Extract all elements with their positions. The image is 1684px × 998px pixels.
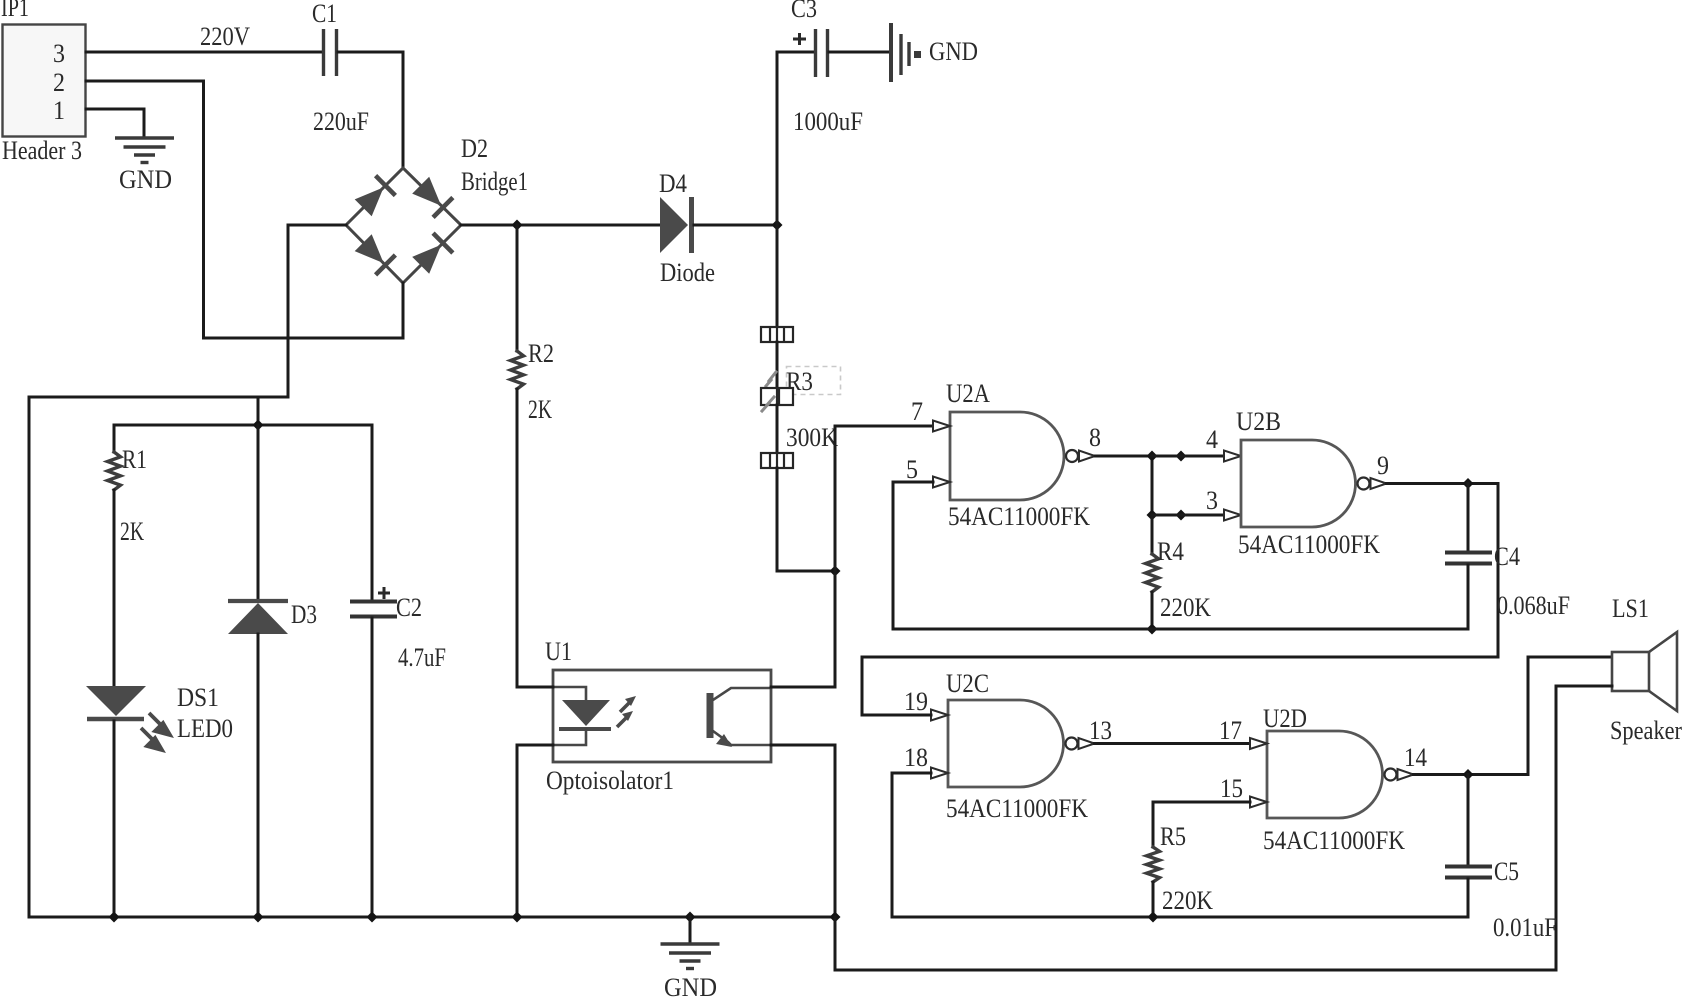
junction 4a bbox=[1176, 451, 1187, 462]
wire R5 down bbox=[1152, 882, 1155, 917]
pin number 1 bbox=[53, 96, 65, 125]
label 15 bbox=[1220, 774, 1243, 803]
svg-text:0.01uF: 0.01uF bbox=[1493, 913, 1557, 942]
ground rail A bbox=[29, 916, 835, 919]
svg-text:2K: 2K bbox=[528, 395, 552, 424]
resistor R5 bbox=[1147, 847, 1160, 882]
label R1 bbox=[122, 445, 147, 474]
label C4 bbox=[1494, 542, 1520, 571]
label 14 bbox=[1404, 743, 1427, 772]
label R5 bbox=[1160, 822, 1186, 851]
wire bridge right to D4 bbox=[461, 224, 660, 227]
svg-text:U2B: U2B bbox=[1236, 407, 1281, 436]
svg-text:9: 9 bbox=[1377, 451, 1389, 480]
svg-text:R1: R1 bbox=[122, 445, 147, 474]
label LED0 bbox=[177, 714, 233, 743]
svg-text:8: 8 bbox=[1089, 423, 1101, 452]
wire up to speaker bbox=[1528, 657, 1611, 775]
label C3 bbox=[791, 0, 817, 23]
U1 LED cathode path bbox=[553, 729, 586, 745]
capacitor C3 plates bbox=[816, 29, 828, 77]
svg-text:14: 14 bbox=[1404, 743, 1427, 772]
svg-text:19: 19 bbox=[904, 687, 928, 716]
LED DS1 arrows bbox=[141, 713, 170, 750]
label 18 bbox=[904, 743, 928, 772]
gray resistor mark lower bbox=[762, 397, 774, 411]
capacitor C4 bbox=[1445, 484, 1492, 630]
junction rail opto-right bbox=[830, 912, 841, 923]
capacitor C5 bbox=[1445, 775, 1492, 918]
wire D3 top stub bbox=[257, 397, 260, 424]
svg-text:C1: C1 bbox=[312, 0, 337, 28]
label U2B bbox=[1236, 407, 1281, 436]
label R4 bbox=[1157, 537, 1184, 566]
wire oscillator1 bottom bbox=[893, 628, 1468, 631]
svg-text:C2: C2 bbox=[396, 593, 422, 622]
label 0.068uF bbox=[1497, 591, 1570, 620]
wire to pin4 bbox=[1152, 455, 1224, 458]
optoisolator U1 box bbox=[553, 670, 771, 762]
wire node to pin7 and opto bbox=[835, 426, 933, 687]
svg-text:U2A: U2A bbox=[946, 379, 990, 408]
wire pin5 bbox=[893, 482, 933, 629]
label D2 bbox=[461, 134, 488, 163]
label U1 bbox=[545, 637, 572, 666]
nand gate U2C bbox=[948, 700, 1095, 787]
label U2C bbox=[946, 669, 989, 698]
power ground GND at C3 bbox=[891, 23, 921, 82]
wire C3 to GND bbox=[829, 51, 889, 54]
svg-text:Bridge1: Bridge1 bbox=[461, 167, 528, 196]
LED DS1 bbox=[86, 686, 146, 719]
wire pin3 to C1 bbox=[86, 51, 322, 54]
wire node to R4 bbox=[1151, 515, 1154, 554]
svg-text:U1: U1 bbox=[545, 637, 572, 666]
pin 17 triangle bbox=[1250, 738, 1267, 749]
svg-text:Optoisolator1: Optoisolator1 bbox=[546, 766, 674, 795]
label 2K R1 bbox=[120, 517, 144, 546]
svg-text:GND: GND bbox=[929, 37, 978, 66]
junction at R2 top bbox=[512, 220, 523, 231]
junction D3 top bbox=[253, 420, 264, 431]
svg-text:220K: 220K bbox=[1162, 886, 1213, 915]
C3 plus sign bbox=[793, 33, 806, 45]
junction rail C2 bbox=[367, 912, 378, 923]
svg-text:D3: D3 bbox=[291, 600, 317, 629]
pin 5 triangle bbox=[933, 477, 950, 488]
label C5 bbox=[1494, 857, 1519, 886]
bridge rectifier D2 bbox=[346, 168, 461, 283]
junction R5 bottom bbox=[1148, 912, 1159, 923]
svg-text:13: 13 bbox=[1089, 716, 1112, 745]
label 54AC11000FK U2B bbox=[1238, 530, 1380, 559]
gray resistor mark upper bbox=[766, 372, 776, 386]
wire opto left output bbox=[517, 745, 553, 916]
C2 plus sign bbox=[378, 587, 390, 599]
label 4 bbox=[1206, 425, 1218, 454]
label Optoisolator1 bbox=[546, 766, 674, 795]
svg-text:0.068uF: 0.068uF bbox=[1497, 591, 1570, 620]
wire D3 to rail bbox=[257, 634, 260, 916]
svg-text:R2: R2 bbox=[528, 339, 554, 368]
wire pin2 down to bridge bottom bbox=[204, 81, 404, 338]
U1 phototransistor bbox=[707, 688, 772, 747]
U1 LED anode path bbox=[553, 687, 586, 700]
label Diode bbox=[660, 258, 715, 287]
svg-text:15: 15 bbox=[1220, 774, 1243, 803]
wire R2 to optoisolator bbox=[516, 389, 519, 687]
wire pin1 right bbox=[86, 109, 144, 136]
label 4.7uF bbox=[398, 643, 446, 672]
svg-text:IP1: IP1 bbox=[1, 0, 29, 22]
svg-text:5: 5 bbox=[906, 455, 918, 484]
ground GND bottom bbox=[661, 944, 720, 969]
junction R3 node bbox=[830, 566, 841, 577]
junction C5 top bbox=[1463, 769, 1474, 780]
svg-text:220uF: 220uF bbox=[313, 107, 369, 136]
label 0.01uF bbox=[1493, 913, 1557, 942]
label R3 bbox=[786, 367, 813, 396]
svg-text:D4: D4 bbox=[659, 169, 687, 198]
wire opto left input bbox=[517, 686, 553, 689]
svg-text:18: 18 bbox=[904, 743, 928, 772]
svg-text:1000uF: 1000uF bbox=[793, 107, 863, 136]
label U2D bbox=[1263, 704, 1307, 733]
pin 15 triangle bbox=[1250, 797, 1267, 808]
wire speaker lower bbox=[1556, 685, 1612, 688]
svg-text:C4: C4 bbox=[1494, 542, 1520, 571]
label 300K bbox=[786, 423, 838, 452]
wire R4 to loop bbox=[1151, 592, 1154, 629]
label 2K R2 bbox=[528, 395, 552, 424]
pin 7 triangle bbox=[933, 421, 950, 432]
svg-text:GND: GND bbox=[119, 165, 172, 194]
wire node down to R3 bbox=[776, 225, 779, 327]
pin number 3 bbox=[53, 39, 65, 68]
wire pin15 bbox=[1153, 802, 1250, 847]
label 3 bbox=[1206, 486, 1218, 515]
svg-text:LED0: LED0 bbox=[177, 714, 233, 743]
wire R1 top stub bbox=[113, 425, 116, 452]
capacitor C1 plates bbox=[324, 29, 337, 76]
pin number 2 bbox=[53, 68, 65, 97]
wire U2A output bbox=[1095, 455, 1152, 458]
pin 19 triangle bbox=[931, 710, 948, 721]
svg-text:220V: 220V bbox=[200, 22, 250, 51]
wire R1 to LED bbox=[113, 490, 116, 686]
svg-text:4: 4 bbox=[1206, 425, 1218, 454]
junction rail GND bbox=[685, 912, 696, 923]
label 5 bbox=[906, 455, 918, 484]
resistor R2 bbox=[511, 351, 524, 389]
junction rail opto-left bbox=[512, 912, 523, 923]
wire R3 lower segment bbox=[776, 405, 779, 453]
wire R3 upper segment bbox=[776, 342, 779, 388]
wire pin18 bbox=[892, 773, 931, 917]
label GND bottom bbox=[664, 973, 717, 998]
ground GND header bbox=[115, 138, 174, 194]
label GND at C3 bbox=[929, 37, 978, 66]
resistor R1 bbox=[108, 452, 121, 490]
svg-text:LS1: LS1 bbox=[1612, 594, 1649, 623]
wire D3 branch bbox=[257, 425, 260, 601]
label Bridge1 bbox=[461, 167, 528, 196]
wire to pin3 bbox=[1152, 514, 1224, 517]
svg-text:2K: 2K bbox=[120, 517, 144, 546]
svg-text:D2: D2 bbox=[461, 134, 488, 163]
wire block top bbox=[114, 424, 372, 427]
speaker LS1 bbox=[1612, 632, 1677, 711]
svg-text:7: 7 bbox=[911, 397, 923, 426]
wire node up to C3 bbox=[777, 52, 814, 225]
junction D4 output bbox=[772, 220, 783, 231]
footprint pad symbol above R3 bbox=[761, 327, 793, 342]
svg-text:GND: GND bbox=[664, 973, 717, 998]
svg-text:U2D: U2D bbox=[1263, 704, 1307, 733]
junction rail D3 bbox=[253, 912, 264, 923]
junction 3b bbox=[1176, 510, 1187, 521]
capacitor C2 bbox=[350, 602, 397, 617]
label 13 bbox=[1089, 716, 1112, 745]
label 7 bbox=[911, 397, 923, 426]
wire U2B output bbox=[1387, 482, 1499, 485]
svg-text:300K: 300K bbox=[786, 423, 838, 452]
resistor R4 bbox=[1146, 554, 1159, 592]
nand gate U2B bbox=[1241, 440, 1387, 527]
label 220K R5 bbox=[1162, 886, 1213, 915]
svg-text:54AC11000FK: 54AC11000FK bbox=[1263, 826, 1405, 855]
label C1 bbox=[312, 0, 337, 28]
wire C1 to bridge top bbox=[338, 52, 403, 167]
label Header 3 bbox=[2, 136, 82, 165]
svg-text:54AC11000FK: 54AC11000FK bbox=[946, 794, 1088, 823]
wire opto right emitter bbox=[771, 745, 835, 970]
selection box R3 bbox=[787, 367, 841, 395]
ground rail B bbox=[892, 916, 1468, 919]
wire opto right collector bbox=[771, 686, 835, 689]
svg-text:R4: R4 bbox=[1157, 537, 1184, 566]
junction C4 top bbox=[1463, 478, 1474, 489]
resistor R3 pad symbols bbox=[761, 388, 793, 405]
pin 18 triangle bbox=[931, 768, 948, 779]
label DS1 bbox=[177, 683, 219, 712]
label Speaker bbox=[1610, 716, 1682, 745]
label C2 bbox=[396, 593, 422, 622]
junction 3a bbox=[1147, 510, 1158, 521]
connector IP1 Header 3 box bbox=[3, 25, 86, 137]
svg-text:3: 3 bbox=[53, 39, 65, 68]
nand gate U2A bbox=[950, 412, 1095, 500]
label 220V bbox=[200, 22, 250, 51]
svg-text:220K: 220K bbox=[1160, 593, 1211, 622]
label R2 bbox=[528, 339, 554, 368]
svg-text:C5: C5 bbox=[1494, 857, 1519, 886]
GND stub bbox=[689, 917, 692, 943]
label D4 bbox=[659, 169, 687, 198]
wire U2D output bbox=[1414, 773, 1529, 776]
junction 8a bbox=[1147, 451, 1158, 462]
svg-text:17: 17 bbox=[1219, 716, 1242, 745]
svg-text:R5: R5 bbox=[1160, 822, 1186, 851]
label 1000uF bbox=[793, 107, 863, 136]
wire R3 to corner bbox=[777, 468, 835, 571]
wire down to U2C input bbox=[862, 484, 1498, 716]
svg-text:54AC11000FK: 54AC11000FK bbox=[948, 502, 1090, 531]
wire bottom to speaker bbox=[835, 686, 1556, 970]
label 54AC11000FK U2C bbox=[946, 794, 1088, 823]
label 8 bbox=[1089, 423, 1101, 452]
wire node down to R2 bbox=[516, 225, 519, 351]
svg-text:2: 2 bbox=[53, 68, 65, 97]
U1 LED emission arrows bbox=[617, 696, 636, 727]
diode D3 bbox=[228, 601, 288, 634]
diode D4 bbox=[660, 197, 692, 253]
label 17 bbox=[1219, 716, 1242, 745]
svg-text:4.7uF: 4.7uF bbox=[398, 643, 446, 672]
wire pin19 bbox=[862, 714, 931, 717]
pin 4 triangle bbox=[1224, 451, 1241, 462]
svg-text:1: 1 bbox=[53, 96, 65, 125]
U1 LED bbox=[559, 700, 611, 729]
wire D4 to node bbox=[694, 224, 777, 227]
wire C2 branch bbox=[371, 425, 374, 600]
wire C2 to rail bbox=[371, 618, 374, 916]
svg-text:DS1: DS1 bbox=[177, 683, 219, 712]
svg-text:Header 3: Header 3 bbox=[2, 136, 82, 165]
wire bridge left to rail bbox=[29, 225, 346, 916]
wire LED to rail bbox=[113, 721, 116, 916]
label U2A bbox=[946, 379, 990, 408]
svg-text:3: 3 bbox=[1206, 486, 1218, 515]
label 19 bbox=[904, 687, 928, 716]
wire U2C output bbox=[1095, 742, 1251, 745]
svg-text:54AC11000FK: 54AC11000FK bbox=[1238, 530, 1380, 559]
label 220uF bbox=[313, 107, 369, 136]
svg-text:U2C: U2C bbox=[946, 669, 989, 698]
label D3 bbox=[291, 600, 317, 629]
pin 3 triangle bbox=[1224, 510, 1241, 521]
nand gate U2D bbox=[1267, 731, 1414, 818]
label LS1 bbox=[1612, 594, 1649, 623]
footprint pad symbol below R3 bbox=[761, 453, 793, 468]
label 54AC11000FK U2A bbox=[948, 502, 1090, 531]
label 220K R4 bbox=[1160, 593, 1211, 622]
label 9 bbox=[1377, 451, 1389, 480]
svg-text:C3: C3 bbox=[791, 0, 817, 23]
wire pin2 right bbox=[86, 80, 204, 83]
label IP1 bbox=[1, 0, 29, 22]
svg-text:Diode: Diode bbox=[660, 258, 715, 287]
junction rail DS1 bbox=[109, 912, 120, 923]
wire node8 down bbox=[1151, 456, 1154, 515]
svg-text:Speaker: Speaker bbox=[1610, 716, 1682, 745]
junction R4 bottom bbox=[1147, 624, 1158, 635]
label 54AC11000FK U2D bbox=[1263, 826, 1405, 855]
